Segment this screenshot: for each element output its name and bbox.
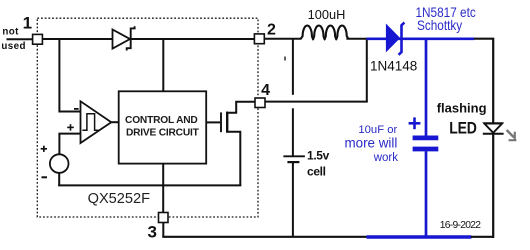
label 1.5v cell	[307, 149, 330, 179]
wire pin3 to bottom ground rail	[162, 223, 164, 237]
battery BT1 negative plate	[287, 161, 299, 163]
wire blue anode rail	[367, 37, 475, 40]
capacitor C1 blue top lead	[425, 39, 428, 136]
wire battery to bottom rail	[292, 163, 294, 237]
svg-text:CONTROL AND: CONTROL AND	[125, 115, 198, 126]
wire top rail from internal diode to pin2	[131, 38, 254, 40]
svg-text:more will: more will	[344, 136, 397, 151]
wire source circle to internal ground rail	[58, 172, 60, 186]
LED D3 cathode bar	[483, 133, 504, 135]
control and drive circuit box U1	[119, 91, 207, 163]
svg-text:LED: LED	[449, 120, 477, 138]
svg-text:cell: cell	[307, 165, 326, 179]
wire battery rail middle	[292, 108, 294, 156]
diode D2 1N4148 blue triangle	[386, 25, 399, 52]
wire battery rail top (crossover gap at pin4 rail)	[292, 38, 294, 95]
op-amp comparator triangle	[81, 101, 112, 143]
svg-text:used: used	[1, 41, 25, 52]
wire LED cathode down to bottom rail	[492, 134, 494, 238]
wire op-amp output to control box	[111, 121, 119, 123]
wire inductor to diode junction	[346, 38, 367, 40]
svg-text:work: work	[373, 152, 399, 164]
internal diode D1 (schottky) triangle	[113, 30, 131, 49]
wire pin2 to inductor	[264, 38, 302, 40]
LED D3 anode bar	[484, 122, 503, 124]
wire mosfet source to internal ground rail	[226, 132, 240, 186]
diode D2 cathode bar with schottky hooks	[399, 23, 405, 55]
wire bottom ground rail black left section	[162, 236, 367, 238]
pad pin2	[254, 34, 264, 44]
stray tick mark	[284, 57, 286, 61]
capacitor C1 bottom lead	[425, 151, 428, 238]
plus sign op-amp input	[67, 124, 74, 131]
wire vertical to op-amp minus input	[59, 38, 80, 112]
minus sign op-amp input	[74, 108, 79, 110]
dashed IC boundary box QX5252F	[37, 18, 258, 217]
wire junction down to pin4 rail	[366, 39, 368, 102]
svg-text:1N4148: 1N4148	[370, 59, 417, 74]
square wave symbol inside op-amp	[82, 114, 98, 130]
svg-text:QX5252F: QX5252F	[88, 191, 151, 207]
battery BT1 positive plate	[283, 155, 305, 157]
label CONTROL AND DRIVE CIRCUIT	[125, 115, 200, 138]
svg-text:100uH: 100uH	[308, 7, 346, 22]
svg-text:DRIVE CIRCUIT: DRIVE CIRCUIT	[126, 128, 200, 139]
mosfet Q1 channel bar	[226, 112, 228, 133]
wire op-amp plus input to source circle	[59, 134, 80, 156]
inductor L1 100uH coil	[301, 26, 349, 40]
svg-text:4: 4	[261, 82, 270, 99]
capacitor C1 plus sign	[409, 117, 421, 129]
label 10uF or more will work	[344, 124, 398, 164]
svg-text:not: not	[2, 27, 19, 38]
capacitor C1 top plate	[413, 135, 439, 140]
svg-text:flashing: flashing	[437, 101, 487, 116]
label not used	[1, 27, 25, 53]
svg-text:3: 3	[147, 223, 156, 242]
wire black top right corner	[474, 39, 493, 124]
voltage source circle	[50, 154, 69, 173]
label 1N5817 etc Schottky	[416, 4, 477, 33]
svg-text:10uF or: 10uF or	[358, 124, 397, 136]
wire top rail from pin1 to internal diode	[42, 38, 113, 40]
wire mosfet drain to pin4	[226, 102, 255, 113]
wire control box bottom to pin3	[162, 164, 164, 213]
minus sign at source circle	[42, 176, 48, 178]
svg-text:1: 1	[23, 13, 32, 32]
pad pin1	[33, 34, 43, 44]
label flashing LED	[437, 101, 487, 138]
capacitor C1 bottom plate	[413, 147, 439, 152]
LED D3 triangle	[484, 124, 502, 133]
wire black bottom right corner	[471, 236, 493, 238]
wire internal bottom rail	[58, 184, 241, 186]
plus sign at source circle	[41, 146, 47, 152]
svg-text:2: 2	[267, 22, 276, 39]
svg-text:1.5v: 1.5v	[307, 149, 330, 163]
internal diode D1 cathode bar with hooks	[127, 26, 135, 50]
wire stub not-used into pin1	[7, 38, 33, 40]
wire blue bottom rail	[367, 235, 472, 238]
LED arrow emission	[507, 130, 517, 140]
wire pin4 to junction	[265, 101, 368, 103]
pad pin4	[255, 98, 265, 108]
wire control box to mosfet gate	[206, 121, 220, 123]
mosfet Q1 gate bar	[220, 112, 222, 132]
pad pin3	[159, 213, 169, 223]
wire top rail to control box top	[162, 39, 164, 91]
svg-text:Schottky: Schottky	[417, 17, 463, 33]
svg-text:16-9-2022: 16-9-2022	[440, 220, 481, 231]
